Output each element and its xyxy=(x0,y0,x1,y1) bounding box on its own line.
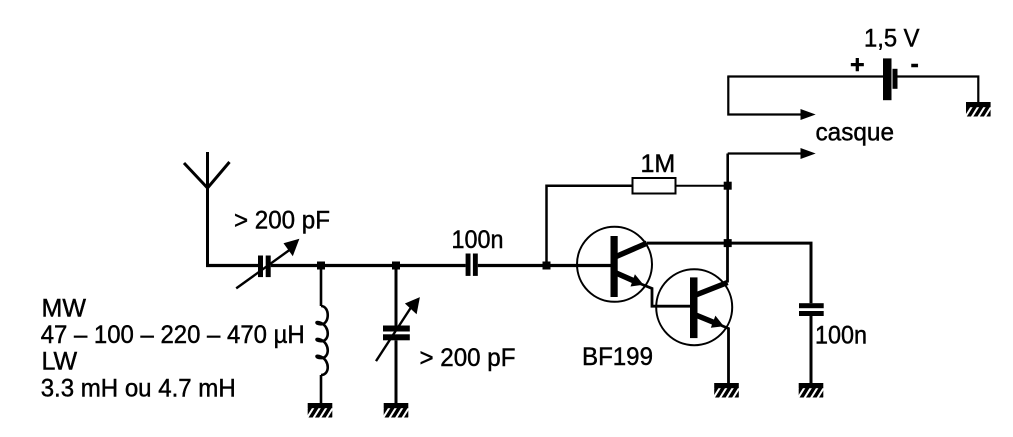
svg-text:1M: 1M xyxy=(641,150,676,178)
antenna xyxy=(184,152,230,266)
ground (inductor) xyxy=(303,403,346,420)
node B (varcap branch) xyxy=(392,262,400,270)
node E (collector junction) xyxy=(724,239,732,247)
wire (collector line to output cap corner) xyxy=(647,243,811,303)
wire (1M right lead to node D) xyxy=(676,185,728,187)
svg-text:casque: casque xyxy=(816,119,895,147)
node D (1M right / feedback) xyxy=(724,182,732,190)
ground (battery) xyxy=(961,102,1004,119)
wire (battery + side horizontal) xyxy=(727,75,883,77)
svg-text:-: - xyxy=(911,50,919,78)
node C (base / 1M junction) xyxy=(543,262,551,270)
wire (Q2 collector up to collector node) xyxy=(726,243,729,282)
svg-text:> 200 pF: > 200 pF xyxy=(420,344,516,372)
svg-text:100n: 100n xyxy=(815,322,867,350)
transistor Q1 BF199 xyxy=(577,227,690,306)
wire (node C up to 1M) xyxy=(547,186,633,266)
svg-text:MW: MW xyxy=(42,295,87,323)
wire (casque arrow 2) xyxy=(728,148,816,159)
ground (varcap C2) xyxy=(379,403,422,420)
svg-text:+: + xyxy=(850,51,865,79)
svg-text:> 200 pF: > 200 pF xyxy=(234,207,330,235)
svg-text:1,5 V: 1,5 V xyxy=(864,25,920,53)
svg-text:47 – 100 – 220 – 470 µH: 47 – 100 – 220 – 470 µH xyxy=(41,321,305,349)
battery BT1 1,5 V xyxy=(883,58,898,100)
inductor L (MW/LW coil) xyxy=(317,266,328,404)
capacitor C3 100n coupling xyxy=(466,254,478,276)
resistor R1 1M xyxy=(633,178,676,194)
svg-text:100n: 100n xyxy=(452,226,504,254)
svg-text:BF199: BF199 xyxy=(582,343,653,371)
wire (battery - side to ground) xyxy=(898,77,979,104)
wire (battery + down and casque arrow 1) xyxy=(728,77,815,121)
ground (Q2 emitter) xyxy=(709,383,752,400)
capacitor C2 variable > 200 pF (to ground) xyxy=(376,266,420,404)
wire main horizontal mid segment (C1 to 100n) xyxy=(271,264,466,267)
capacitor C1 variable > 200 pF xyxy=(236,239,299,289)
wire (vertical feedback: casque arrow corner down to collector node) xyxy=(726,154,729,244)
svg-text:3.3 mH ou 4.7 mH: 3.3 mH ou 4.7 mH xyxy=(41,375,236,403)
ground (output cap) xyxy=(794,383,837,400)
wire main horizontal left segment (antenna to C1) xyxy=(206,264,258,267)
capacitor C4 100n output xyxy=(799,303,824,383)
svg-text:LW: LW xyxy=(42,348,78,376)
node A (tank node, inductor) xyxy=(317,262,325,270)
wire (C3 to base node to Q1 base) xyxy=(478,264,611,267)
transistor Q2 BF199 xyxy=(656,269,732,383)
